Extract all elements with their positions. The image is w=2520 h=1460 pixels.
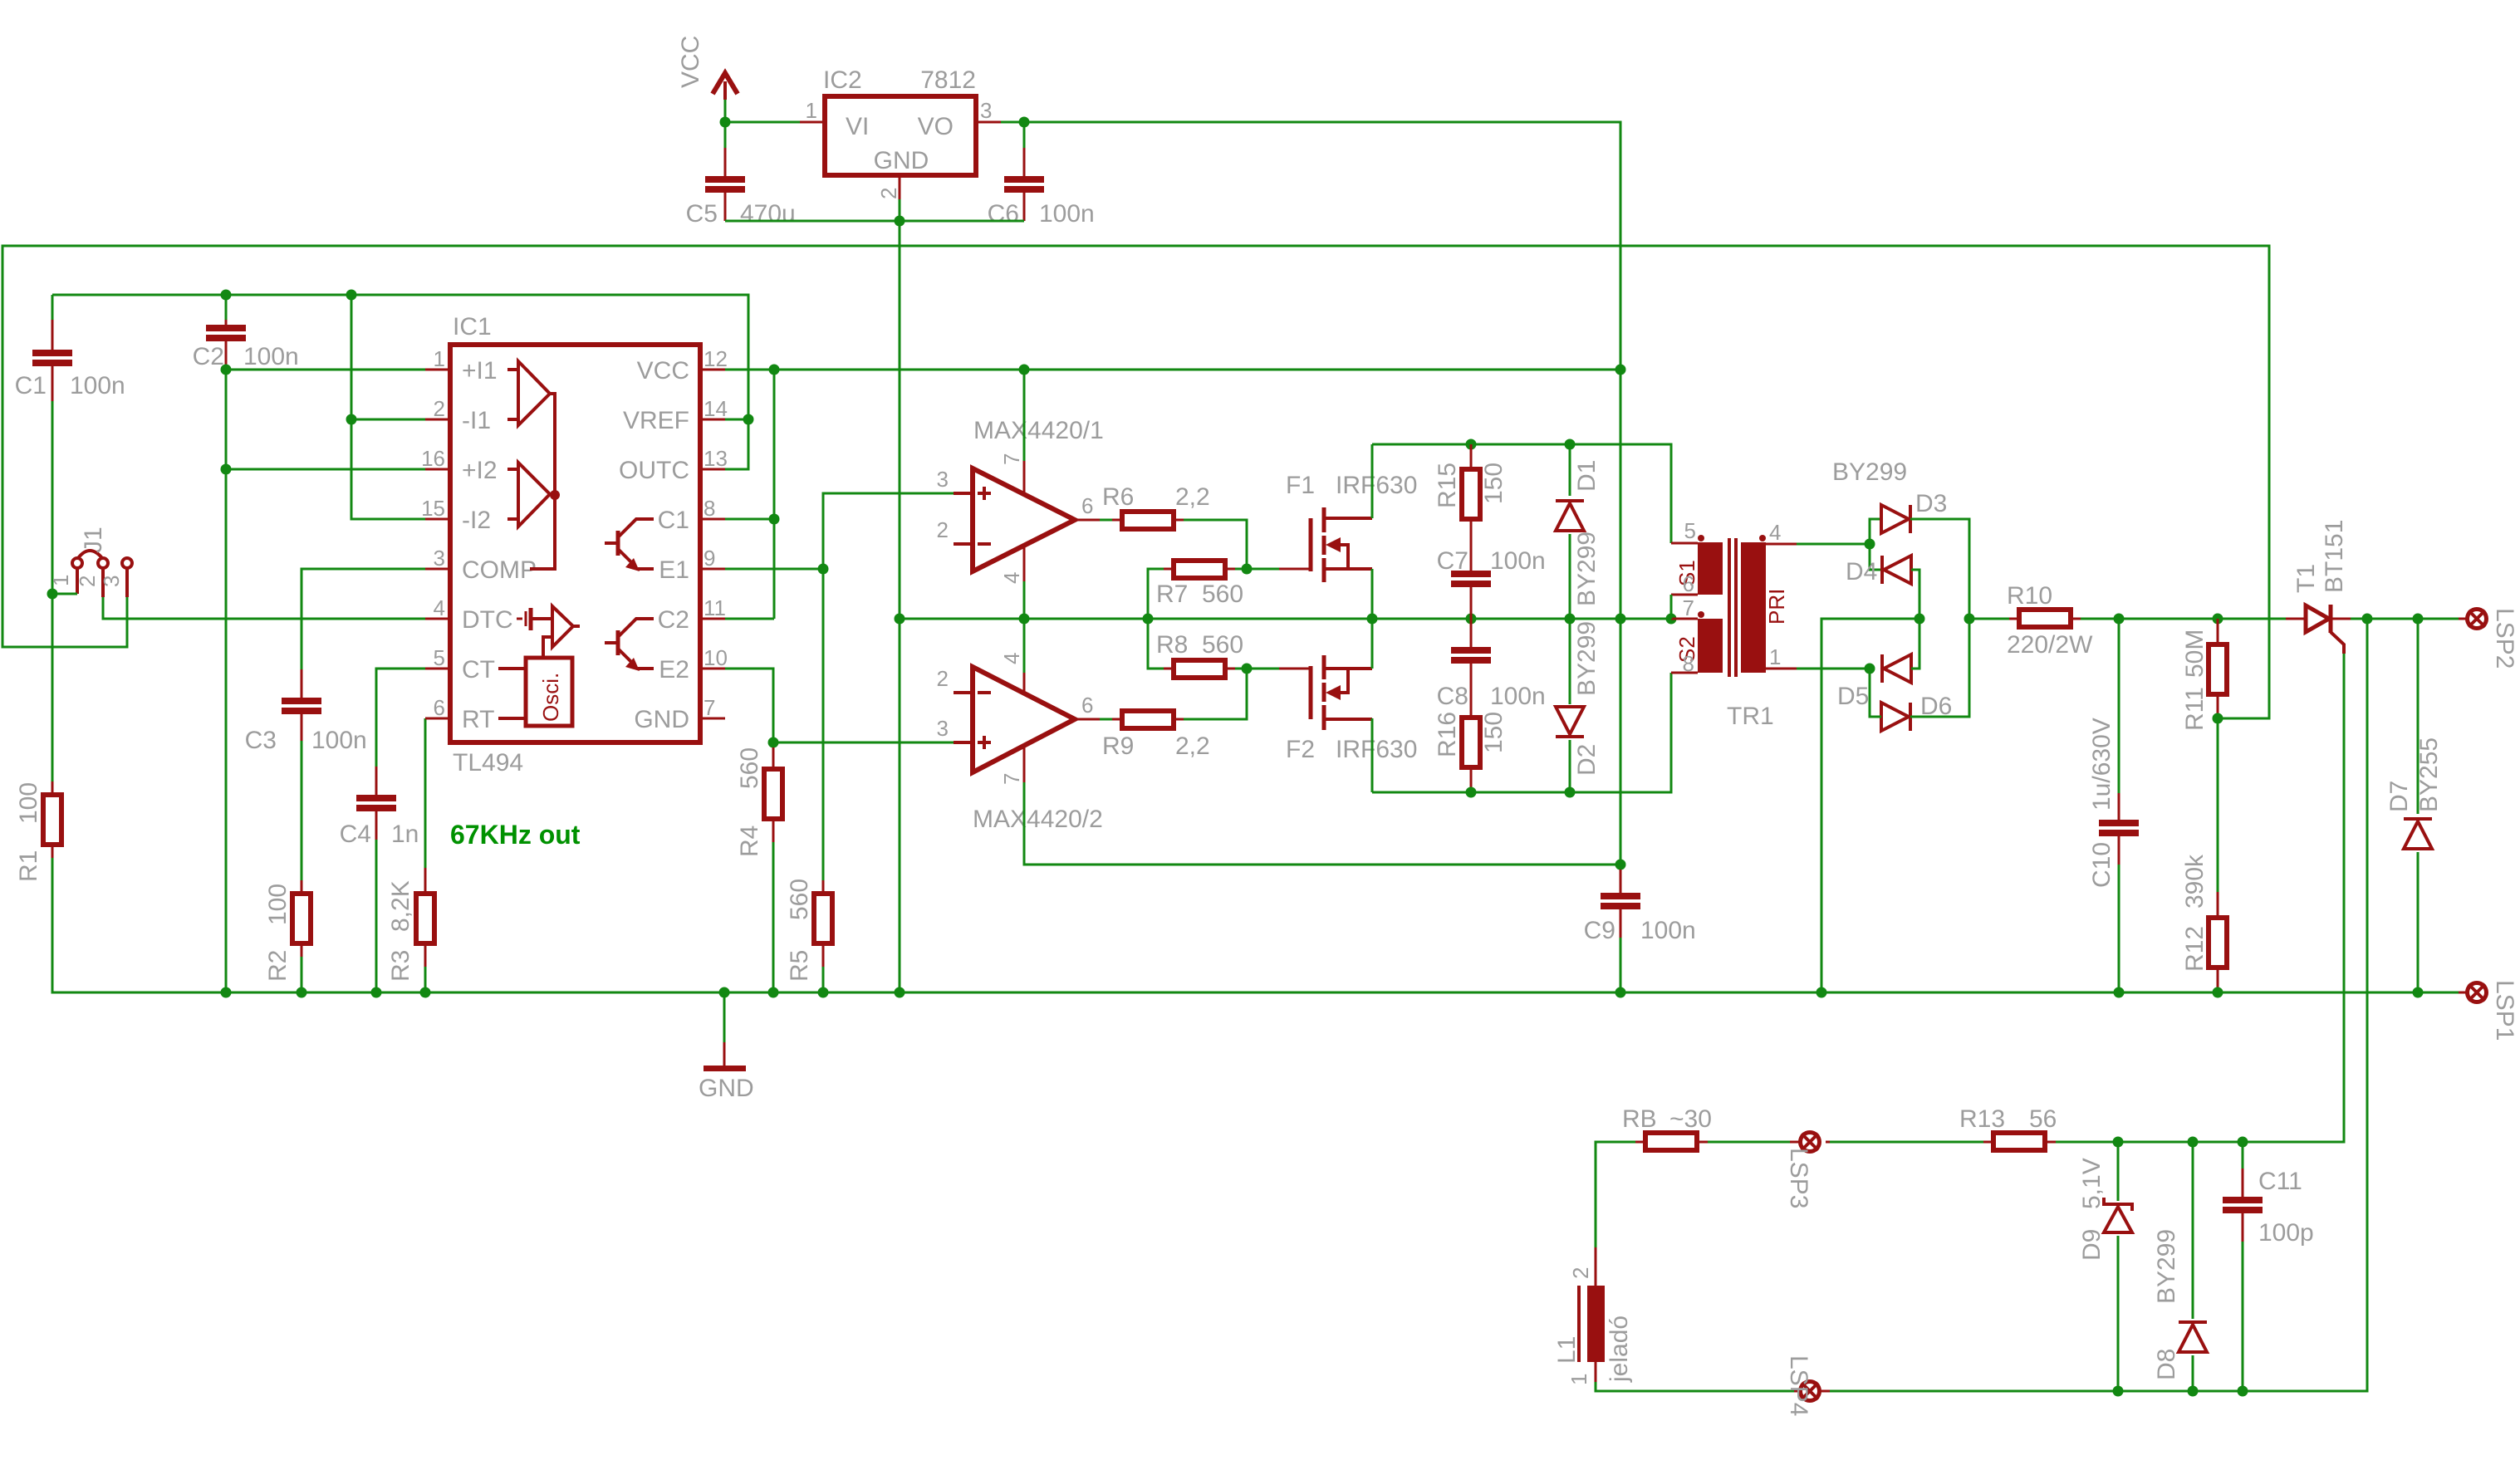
svg-text:VREF: VREF (623, 407, 689, 434)
svg-text:390k: 390k (2181, 854, 2209, 909)
svg-text:TL494: TL494 (453, 749, 523, 777)
wire J1 pin2 to DTC (103, 597, 425, 619)
wire TR1 pin6 to center (1670, 595, 1673, 619)
junction gnd/MAX pins4-7 (1019, 614, 1030, 625)
wire D4 anode to minus node (1911, 570, 1919, 619)
svg-text:R16: R16 (1434, 712, 1461, 757)
svg-text:100n: 100n (311, 727, 367, 754)
ground symbol GND (699, 992, 754, 1102)
svg-text:56: 56 (2029, 1105, 2057, 1133)
svg-text:4: 4 (434, 595, 445, 620)
junction C11 bottom (2238, 1386, 2248, 1397)
svg-text:560: 560 (736, 747, 763, 789)
diode D3 BY299 (1881, 490, 1947, 533)
diode D5 BY299 (1837, 654, 1911, 710)
IC2 7812 regulator (800, 66, 1001, 199)
svg-text:R6: R6 (1102, 483, 1134, 511)
svg-text:D8: D8 (2153, 1349, 2180, 1380)
pin 1 +I1 (425, 346, 498, 385)
wire COMP pin3 (302, 569, 425, 669)
svg-text:L1: L1 (1553, 1336, 1581, 1364)
junction gnd/TR1 center (1666, 614, 1677, 625)
wire MAX2 gnd pin4 (1023, 619, 1026, 673)
svg-text:DTC: DTC (462, 606, 513, 634)
junction R11 top (2213, 614, 2223, 625)
junction -I1 (346, 414, 357, 425)
svg-text:IRF630: IRF630 (1336, 472, 1417, 499)
svg-text:C11: C11 (2258, 1168, 2302, 1195)
svg-text:E1: E1 (659, 556, 689, 584)
svg-text:C9: C9 (1584, 917, 1615, 944)
junction C1 pin8 (769, 514, 780, 525)
svg-text:R5: R5 (786, 950, 813, 982)
resistor R13 (1959, 1105, 2057, 1150)
svg-text:LSP4: LSP4 (1785, 1355, 1812, 1416)
svg-text:2,2: 2,2 (1175, 732, 1210, 760)
capacitor C10 (2088, 619, 2139, 888)
wire -I1 pin2 (351, 419, 425, 421)
svg-text:R11: R11 (2181, 687, 2209, 731)
svg-text:16: 16 (421, 446, 445, 471)
svg-text:D4: D4 (1846, 558, 1877, 585)
wire F1 drain rail to TR1 pin5 (1372, 444, 1671, 543)
junction E1 (818, 564, 829, 575)
svg-text:C1: C1 (658, 507, 689, 534)
pin 9 E1 (659, 546, 725, 584)
junction VREF (743, 414, 754, 425)
resistor R15 (1434, 444, 1508, 544)
op-amp U MAX4420/1 (937, 417, 1104, 584)
svg-text:BY255: BY255 (2415, 737, 2443, 812)
wire E1 pin9 to MAX1 input (725, 568, 823, 571)
pin 8 C1 (658, 496, 725, 534)
wire R3 to bus (424, 967, 427, 992)
svg-text:IC1: IC1 (453, 313, 492, 341)
wire R4 tap to MAX2 +in (773, 742, 954, 744)
svg-text:CT: CT (462, 656, 495, 683)
svg-text:150: 150 (1480, 463, 1508, 504)
junction gnd/D1D2 (1565, 614, 1576, 625)
diode D6 BY299 (1881, 693, 1952, 731)
wire R8 left leg to gnd (1148, 619, 1164, 669)
junction D2 bottom (1565, 787, 1576, 798)
junction J1 pin1 tap (47, 589, 58, 600)
svg-text:100n: 100n (70, 372, 125, 399)
wire LSP3 to RB (1708, 1141, 1790, 1144)
svg-text:D9: D9 (2078, 1229, 2106, 1261)
svg-text:14: 14 (704, 396, 728, 421)
junction +I2 (221, 464, 232, 475)
wire gate node to F2 gate (1247, 668, 1281, 670)
svg-text:1: 1 (1566, 1374, 1591, 1385)
junction bridge AC node top (1865, 539, 1875, 550)
svg-text:10: 10 (704, 645, 728, 670)
wire D5 anode to minus node (1911, 619, 1919, 669)
svg-text:11: 11 (704, 595, 726, 620)
capacitor C6 (988, 122, 1095, 228)
svg-text:C1: C1 (15, 372, 47, 399)
svg-text:3: 3 (99, 576, 124, 587)
wire +I2 pin16 (226, 468, 425, 471)
thyristor T1 BT151 (2286, 520, 2351, 654)
wire R1 to ground bus (52, 858, 2459, 992)
junction D1 top (1565, 439, 1576, 450)
wire VCC rail pin12 (725, 369, 1620, 371)
wire IC2 GND down to ground bus (899, 199, 901, 992)
pin 5 CT (425, 645, 495, 683)
diode D8 BY299 (2153, 1142, 2207, 1391)
svg-text:470u: 470u (740, 200, 796, 228)
junction C9 top (1615, 860, 1626, 870)
wire VREF distribution net (52, 295, 748, 469)
junction D8 top (2188, 1137, 2199, 1148)
IC1 internal oscillator box (498, 658, 572, 726)
junction R11/R12 divider tap (2213, 713, 2223, 724)
resistor R1 (15, 781, 61, 882)
junction at VCC/C5 (720, 117, 731, 128)
wire C10 to bus (2118, 865, 2120, 992)
resistor R4 (736, 747, 782, 857)
svg-text:OUTC: OUTC (619, 457, 689, 484)
wire R2 to bus (301, 957, 303, 992)
svg-text:E2: E2 (659, 656, 689, 683)
resistor RB (1622, 1105, 1712, 1150)
diode D4 BY299 (1846, 556, 1911, 585)
junction C2 top (221, 290, 232, 301)
svg-text:J1: J1 (80, 527, 107, 553)
svg-text:3: 3 (434, 546, 445, 571)
resistor R3 (387, 868, 434, 982)
svg-text:150: 150 (1480, 712, 1508, 753)
wire RT pin6 (424, 718, 427, 868)
svg-text:560: 560 (1202, 631, 1243, 659)
svg-text:C10: C10 (2088, 842, 2116, 888)
svg-text:RB: RB (1622, 1105, 1657, 1133)
junction R2/bus (297, 987, 307, 998)
svg-text:100n: 100n (1640, 917, 1696, 944)
capacitor C9 (1584, 870, 1696, 944)
svg-text:BT151: BT151 (2321, 520, 2348, 593)
wire gate node to F1 gate (1247, 568, 1281, 571)
svg-text:jeladó: jeladó (1606, 1315, 1633, 1383)
svg-text:GND: GND (699, 1075, 754, 1102)
svg-text:5,1V: 5,1V (2078, 1158, 2106, 1209)
pin 11 C2 (658, 595, 726, 634)
junction R15 top (1466, 439, 1477, 450)
inductor L1 jelado coil (1553, 1247, 1633, 1385)
svg-text:R7: R7 (1156, 581, 1188, 608)
svg-text:RT: RT (462, 706, 494, 733)
wire AC bottom to D6 (1870, 669, 1881, 717)
pin 15 -I2 (421, 496, 491, 534)
svg-text:2,2: 2,2 (1175, 483, 1210, 511)
svg-text:2: 2 (1568, 1267, 1593, 1279)
resistor R9 (1100, 711, 1210, 760)
wire R8 right to gate node (1235, 668, 1247, 670)
svg-text:D2: D2 (1573, 744, 1601, 776)
svg-text:VCC: VCC (637, 357, 689, 385)
IC1 internal error amp 2 (507, 463, 550, 527)
wire CT pin5 (376, 669, 425, 767)
wire C5-C6 ground link (725, 220, 1024, 223)
svg-text:BY299: BY299 (1573, 621, 1601, 696)
pin 16 +I2 (421, 446, 497, 484)
junction bridge minus/bus (1816, 987, 1827, 998)
pin 14 VREF (623, 396, 728, 434)
op-amp U IC1 TL494 body (450, 313, 700, 777)
svg-text:VO: VO (918, 113, 954, 140)
VCC power symbol (677, 36, 738, 122)
svg-text:F1: F1 (1286, 472, 1315, 499)
svg-text:GND: GND (874, 147, 929, 174)
wire R7 left leg to gnd (1148, 569, 1164, 619)
wire -I1/-I2 branch (351, 295, 425, 519)
junction bridge plus node (1964, 614, 1975, 625)
wire IC2 VO output (1001, 122, 1620, 371)
svg-text:6: 6 (434, 695, 445, 720)
junction GND symbol/bus (719, 987, 730, 998)
svg-text:100p: 100p (2258, 1219, 2314, 1247)
svg-text:5: 5 (434, 645, 445, 670)
junction VCC/VO feed (1615, 365, 1626, 375)
junction GND net / bottom bus (895, 987, 905, 998)
junction C9/bus (1615, 987, 1626, 998)
wire D3 cathode to plus node (1910, 519, 1969, 619)
svg-text:1: 1 (48, 575, 73, 586)
svg-text:~30: ~30 (1669, 1105, 1712, 1133)
IC1 internal DTC comparator (517, 606, 580, 658)
wire divider tap down to R12 (2217, 718, 2219, 892)
pin 7 GND (634, 695, 725, 733)
svg-text:50M: 50M (2181, 630, 2209, 678)
svg-text:7: 7 (999, 773, 1024, 785)
diode D2 BY299 (1556, 619, 1601, 792)
svg-text:2: 2 (75, 576, 100, 587)
junction VCC/MAX1 supply (1019, 365, 1030, 375)
svg-text:2: 2 (876, 188, 901, 199)
wire VREF pin link (725, 419, 748, 421)
pin 4 DTC (425, 595, 513, 634)
svg-text:+I2: +I2 (462, 457, 498, 484)
svg-text:Osci.: Osci. (538, 673, 563, 722)
svg-text:100n: 100n (1490, 683, 1546, 710)
wire MAX1 Vcc pin7 (1023, 370, 1026, 461)
IC1 internal transistor Q1 (605, 519, 654, 571)
wire C3 to R2 (301, 741, 303, 880)
junction R16 bottom (1466, 787, 1477, 798)
svg-text:3: 3 (980, 98, 992, 123)
resistor R7 (1156, 561, 1243, 608)
svg-text:4: 4 (1769, 520, 1781, 545)
wire T1 cathode to LSP2 (2351, 618, 2459, 620)
capacitor C4 (340, 767, 419, 848)
junction gnd/R7R8 (1143, 614, 1154, 625)
junction gnd/C7C8 (1466, 614, 1477, 625)
wire R4 to bus (772, 842, 775, 992)
svg-text:F2: F2 (1286, 736, 1315, 763)
wire VCC to IC2 VI (725, 121, 800, 124)
IC1 internal comp output to COMP (530, 394, 560, 569)
capacitor C5 (686, 122, 796, 228)
pin 10 E2 (659, 645, 728, 683)
svg-text:D1: D1 (1573, 460, 1601, 492)
svg-text:2: 2 (937, 666, 949, 691)
junction IC2 GND (895, 216, 905, 227)
terminal LSP3 (1785, 1133, 1830, 1209)
wire F2 drain up (1371, 619, 1374, 669)
capacitor C11 (2223, 1142, 2314, 1391)
svg-text:C5: C5 (686, 200, 718, 228)
svg-text:VCC: VCC (677, 36, 704, 88)
svg-text:COMP: COMP (462, 556, 537, 584)
svg-text:2: 2 (434, 396, 445, 421)
wire AC top to D3/D4 (1870, 519, 1881, 570)
svg-text:5: 5 (1684, 518, 1696, 543)
capacitor C8 (1437, 619, 1546, 710)
resistor R10 (1969, 582, 2093, 659)
wire R10 to T1 anode (2081, 618, 2286, 620)
junction R12/bus (2213, 987, 2223, 998)
svg-text:C2: C2 (658, 606, 689, 634)
junction C10/bus (2114, 987, 2125, 998)
resistor R6 (1100, 483, 1210, 529)
junction D9 top (2113, 1137, 2124, 1148)
svg-text:3: 3 (937, 467, 949, 492)
junction C2 net / bus (221, 987, 232, 998)
wire primary ground rail (900, 618, 1671, 620)
terminal LSP1 (2459, 980, 2518, 1041)
svg-text:7: 7 (999, 453, 1024, 465)
IC1 internal transistor Q2 (605, 619, 654, 671)
svg-text:6: 6 (1081, 493, 1093, 518)
svg-text:12: 12 (704, 346, 728, 371)
svg-text:3: 3 (937, 716, 949, 741)
wire E1 riser to MAX1 +in and down to R5 (823, 493, 954, 880)
svg-text:R9: R9 (1102, 732, 1134, 760)
svg-text:TR1: TR1 (1727, 703, 1774, 730)
resistor R16 (1434, 693, 1508, 792)
svg-text:7: 7 (1683, 595, 1694, 620)
svg-text:220/2W: 220/2W (2007, 631, 2093, 659)
junction VO/C6 (1019, 117, 1030, 128)
svg-text:R15: R15 (1434, 463, 1461, 508)
junction x423 top (346, 290, 357, 301)
svg-text:6: 6 (1683, 571, 1694, 596)
junction R3/bus (420, 987, 431, 998)
svg-text:560: 560 (1202, 581, 1243, 608)
svg-text:BY299: BY299 (1832, 458, 1907, 486)
svg-text:100n: 100n (1039, 200, 1095, 228)
svg-text:-I2: -I2 (462, 507, 491, 534)
svg-text:LSP3: LSP3 (1785, 1148, 1812, 1208)
svg-text:7: 7 (704, 695, 715, 720)
svg-text:BY299: BY299 (2153, 1229, 2180, 1304)
wire MAX2 Vcc pin7 down to C9 (1024, 782, 1620, 865)
wire feedback net from R11/R12 divider to input area (2, 246, 2269, 718)
junction gnd/C9 column (1615, 614, 1626, 625)
svg-text:8,2K: 8,2K (387, 880, 414, 932)
svg-text:7812: 7812 (920, 66, 976, 94)
svg-text:100: 100 (264, 884, 292, 925)
wire F2 source rail to TR1 pin8 (1372, 673, 1671, 792)
svg-text:1n: 1n (391, 821, 419, 848)
junction R5/bus (818, 987, 829, 998)
junction F1 gate node (1242, 564, 1253, 575)
resistor R11 (2181, 619, 2227, 731)
junction GND net / long gnd wire (895, 614, 905, 625)
wire F1 source down (1371, 569, 1374, 619)
junction output/D7 (2413, 614, 2424, 625)
svg-text:R12: R12 (2181, 926, 2209, 972)
svg-text:R3: R3 (387, 950, 414, 982)
svg-text:4: 4 (999, 653, 1024, 664)
terminal LSP4 (1785, 1355, 1830, 1416)
capacitor C3 (245, 669, 367, 754)
junction output/LSP4 return (2362, 614, 2373, 625)
svg-text:8: 8 (704, 496, 715, 521)
wire pin11 C2 (725, 618, 774, 620)
junction bridge minus node (1915, 614, 1925, 625)
svg-text:100n: 100n (243, 343, 299, 370)
wire C1 bottom down to R1 (51, 401, 54, 795)
wire J1 pin1 to C1 net (52, 593, 77, 595)
svg-text:6: 6 (1081, 693, 1093, 718)
svg-text:R10: R10 (2007, 582, 2052, 610)
svg-text:2: 2 (937, 517, 949, 542)
svg-text:C7: C7 (1437, 547, 1468, 575)
capacitor C2 (193, 295, 299, 370)
svg-text:R13: R13 (1959, 1105, 2005, 1133)
wire bridge minus to ground bus (1821, 619, 1919, 992)
transformer TR1 (1671, 518, 1797, 730)
wire F1 drain up (1371, 444, 1374, 518)
wire pin8 C1 (725, 518, 774, 521)
connector J1 (48, 527, 132, 597)
wire L1 pin1 to LSP4 (1596, 1382, 1794, 1391)
svg-text:R8: R8 (1156, 631, 1188, 659)
pin 2 -I1 (425, 396, 491, 434)
pin 12 VCC (637, 346, 728, 385)
junction C2 bottom / +I1 (221, 365, 232, 375)
svg-text:9: 9 (704, 546, 715, 571)
pin 6 RT (425, 695, 494, 733)
resistor R5 (786, 879, 832, 982)
svg-text:LSP2: LSP2 (2491, 608, 2518, 669)
svg-text:1: 1 (806, 98, 817, 123)
svg-text:BY299: BY299 (1573, 532, 1601, 606)
capacitor C7 (1437, 544, 1546, 619)
svg-text:C3: C3 (245, 727, 277, 754)
junction F2 gate node (1242, 664, 1253, 674)
wire T1 gate down to LSP3 net (2056, 654, 2344, 1142)
junction C11 top (2238, 1137, 2248, 1148)
svg-text:C8: C8 (1437, 683, 1468, 710)
wire D6 cathode to plus node (1910, 619, 1969, 717)
svg-text:100n: 100n (1490, 547, 1546, 575)
junction C10 top (2114, 614, 2125, 625)
svg-text:C6: C6 (988, 200, 1019, 228)
pin 13 OUTC (619, 446, 728, 484)
junction D7/bus (2413, 987, 2424, 998)
svg-text:15: 15 (421, 496, 445, 521)
svg-text:IRF630: IRF630 (1336, 736, 1417, 763)
wire RB to L1 pin2 (1596, 1142, 1635, 1247)
svg-text:D5: D5 (1837, 683, 1869, 710)
svg-text:D3: D3 (1915, 490, 1947, 517)
junction D9 bottom (2113, 1386, 2124, 1397)
wire MAX1 gnd pin4 (1023, 581, 1026, 619)
junction gnd/F1F2 midpoint (1367, 614, 1378, 625)
